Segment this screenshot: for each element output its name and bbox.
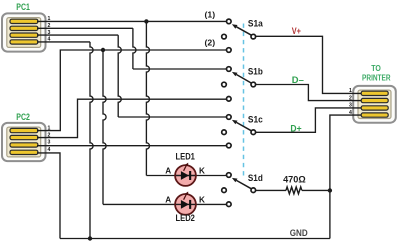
PC1 pin numbers 1-4 [48, 16, 51, 42]
wire PC2 pin4 (GND) down to ground bus [37, 153, 60, 239]
switch S1d bottom throw contact [227, 202, 232, 207]
switch S1c centre-off contact [222, 130, 227, 135]
svg-text:4: 4 [48, 147, 51, 153]
connector PC1 (USB to PC1) [2, 13, 46, 51]
svg-text:PC1: PC1 [16, 2, 30, 12]
switch S1b centre-off contact [222, 82, 227, 87]
gang line (dashed) linking S1a-S1d [243, 24, 245, 177]
svg-text:470Ω: 470Ω [283, 175, 306, 186]
svg-text:K: K [199, 167, 205, 176]
switch S1d pole contact [251, 188, 256, 193]
wire PC1 pin3 to S1c top contact [37, 34, 118, 36]
switch S1b pole contact [251, 82, 256, 87]
wire LED2 anode riser down to LED2 row [103, 50, 106, 204]
connector PC2 (USB to PC2) [2, 123, 46, 161]
node junction resistor / printer pin4 / ground [328, 188, 332, 192]
svg-text:S1d: S1d [248, 172, 263, 183]
wire PC1 pin2 to S1b top contact [37, 27, 133, 29]
svg-text:3: 3 [48, 140, 51, 146]
svg-text:PRINTER: PRINTER [362, 73, 391, 82]
switch S1a blade with arrow [232, 24, 252, 35]
LED2 (indicator LED) [175, 192, 196, 215]
svg-text:A: A [165, 195, 171, 204]
wire PC1 pin1 (V+) to S1a top contact [37, 20, 227, 22]
connector TO PRINTER (USB) [353, 86, 396, 123]
switch S1a top throw contact [227, 19, 232, 24]
wire D+ : S1c pole to printer pin3 [256, 108, 362, 132]
switch S1a pole contact [251, 34, 256, 39]
wire resistor to ground riser junction [302, 189, 330, 191]
svg-text:(1): (1) [205, 10, 216, 20]
switch S1c pole contact [251, 130, 256, 135]
wire LED1 row: anode lead, through LED1, cathode to S1d top contact [146, 175, 226, 177]
svg-text:S1b: S1b [248, 66, 263, 77]
svg-text:D–: D– [292, 75, 304, 85]
svg-text:D+: D+ [290, 123, 301, 133]
svg-text:TO: TO [371, 64, 381, 73]
switch S1c blade with arrow [232, 120, 252, 131]
label TO PRINTER [362, 64, 391, 82]
wire ground bus [60, 238, 330, 240]
wire LED1 anode riser from junction on pin1 wire down to LED1 row [146, 21, 149, 175]
svg-text:PC2: PC2 [16, 112, 30, 122]
svg-text:A: A [165, 167, 171, 176]
svg-text:S1c: S1c [248, 113, 263, 124]
switch S1b blade with arrow [232, 72, 252, 83]
node junction LED2 anode branch on row (2) [101, 48, 105, 52]
switch S1d blade with arrow [232, 178, 252, 189]
switch S1c bottom throw contact [227, 143, 232, 148]
node junction on PC1 pin1 wire [144, 19, 148, 23]
wire S1d pole to resistor R1 [256, 189, 287, 191]
switch S1b bottom throw contact [227, 97, 232, 102]
switch S1c top throw contact [227, 115, 232, 120]
wire PC2 pin3 straight to S1c bottom contact [37, 145, 227, 147]
node junction PC1 pin4 on ground bus [88, 236, 92, 240]
svg-text:K: K [199, 195, 205, 204]
wire D- : S1b pole to printer pin2 [256, 85, 362, 101]
switch S1d centre-off contact [222, 188, 227, 193]
svg-text:GND: GND [290, 228, 308, 239]
switch S1b top throw contact [227, 67, 232, 72]
switch S1a centre-off contact [222, 34, 227, 39]
switch S1a bottom throw contact [227, 48, 232, 53]
wire PC2 pin1 riser up to S1a bottom contact row (2) [37, 50, 227, 131]
svg-text:LED2: LED2 [176, 212, 195, 223]
wire V+ : S1a pole to printer pin1 [256, 36, 362, 93]
svg-text:V+: V+ [292, 26, 301, 36]
LED1 (indicator LED) [175, 163, 196, 186]
svg-text:LED1: LED1 [176, 151, 195, 162]
svg-text:S1a: S1a [248, 18, 264, 29]
wire PC2 pin2 riser up to S1b bottom contact [37, 99, 227, 137]
switch S1d top throw contact [227, 173, 232, 178]
resistor 470 ohm [286, 187, 302, 194]
wire LED2 row: anode lead, through LED2, cathode to S1d bottom contact [103, 203, 227, 205]
wire ground riser: bus up through resistor junction to printer pin4 [330, 115, 361, 238]
svg-text:(2): (2) [205, 38, 216, 48]
printer pin numbers 1-4 [349, 88, 352, 116]
wire PC1 pin4 (GND) down to ground bus [37, 41, 90, 43]
PC2 pin numbers 1-4 [48, 125, 51, 153]
